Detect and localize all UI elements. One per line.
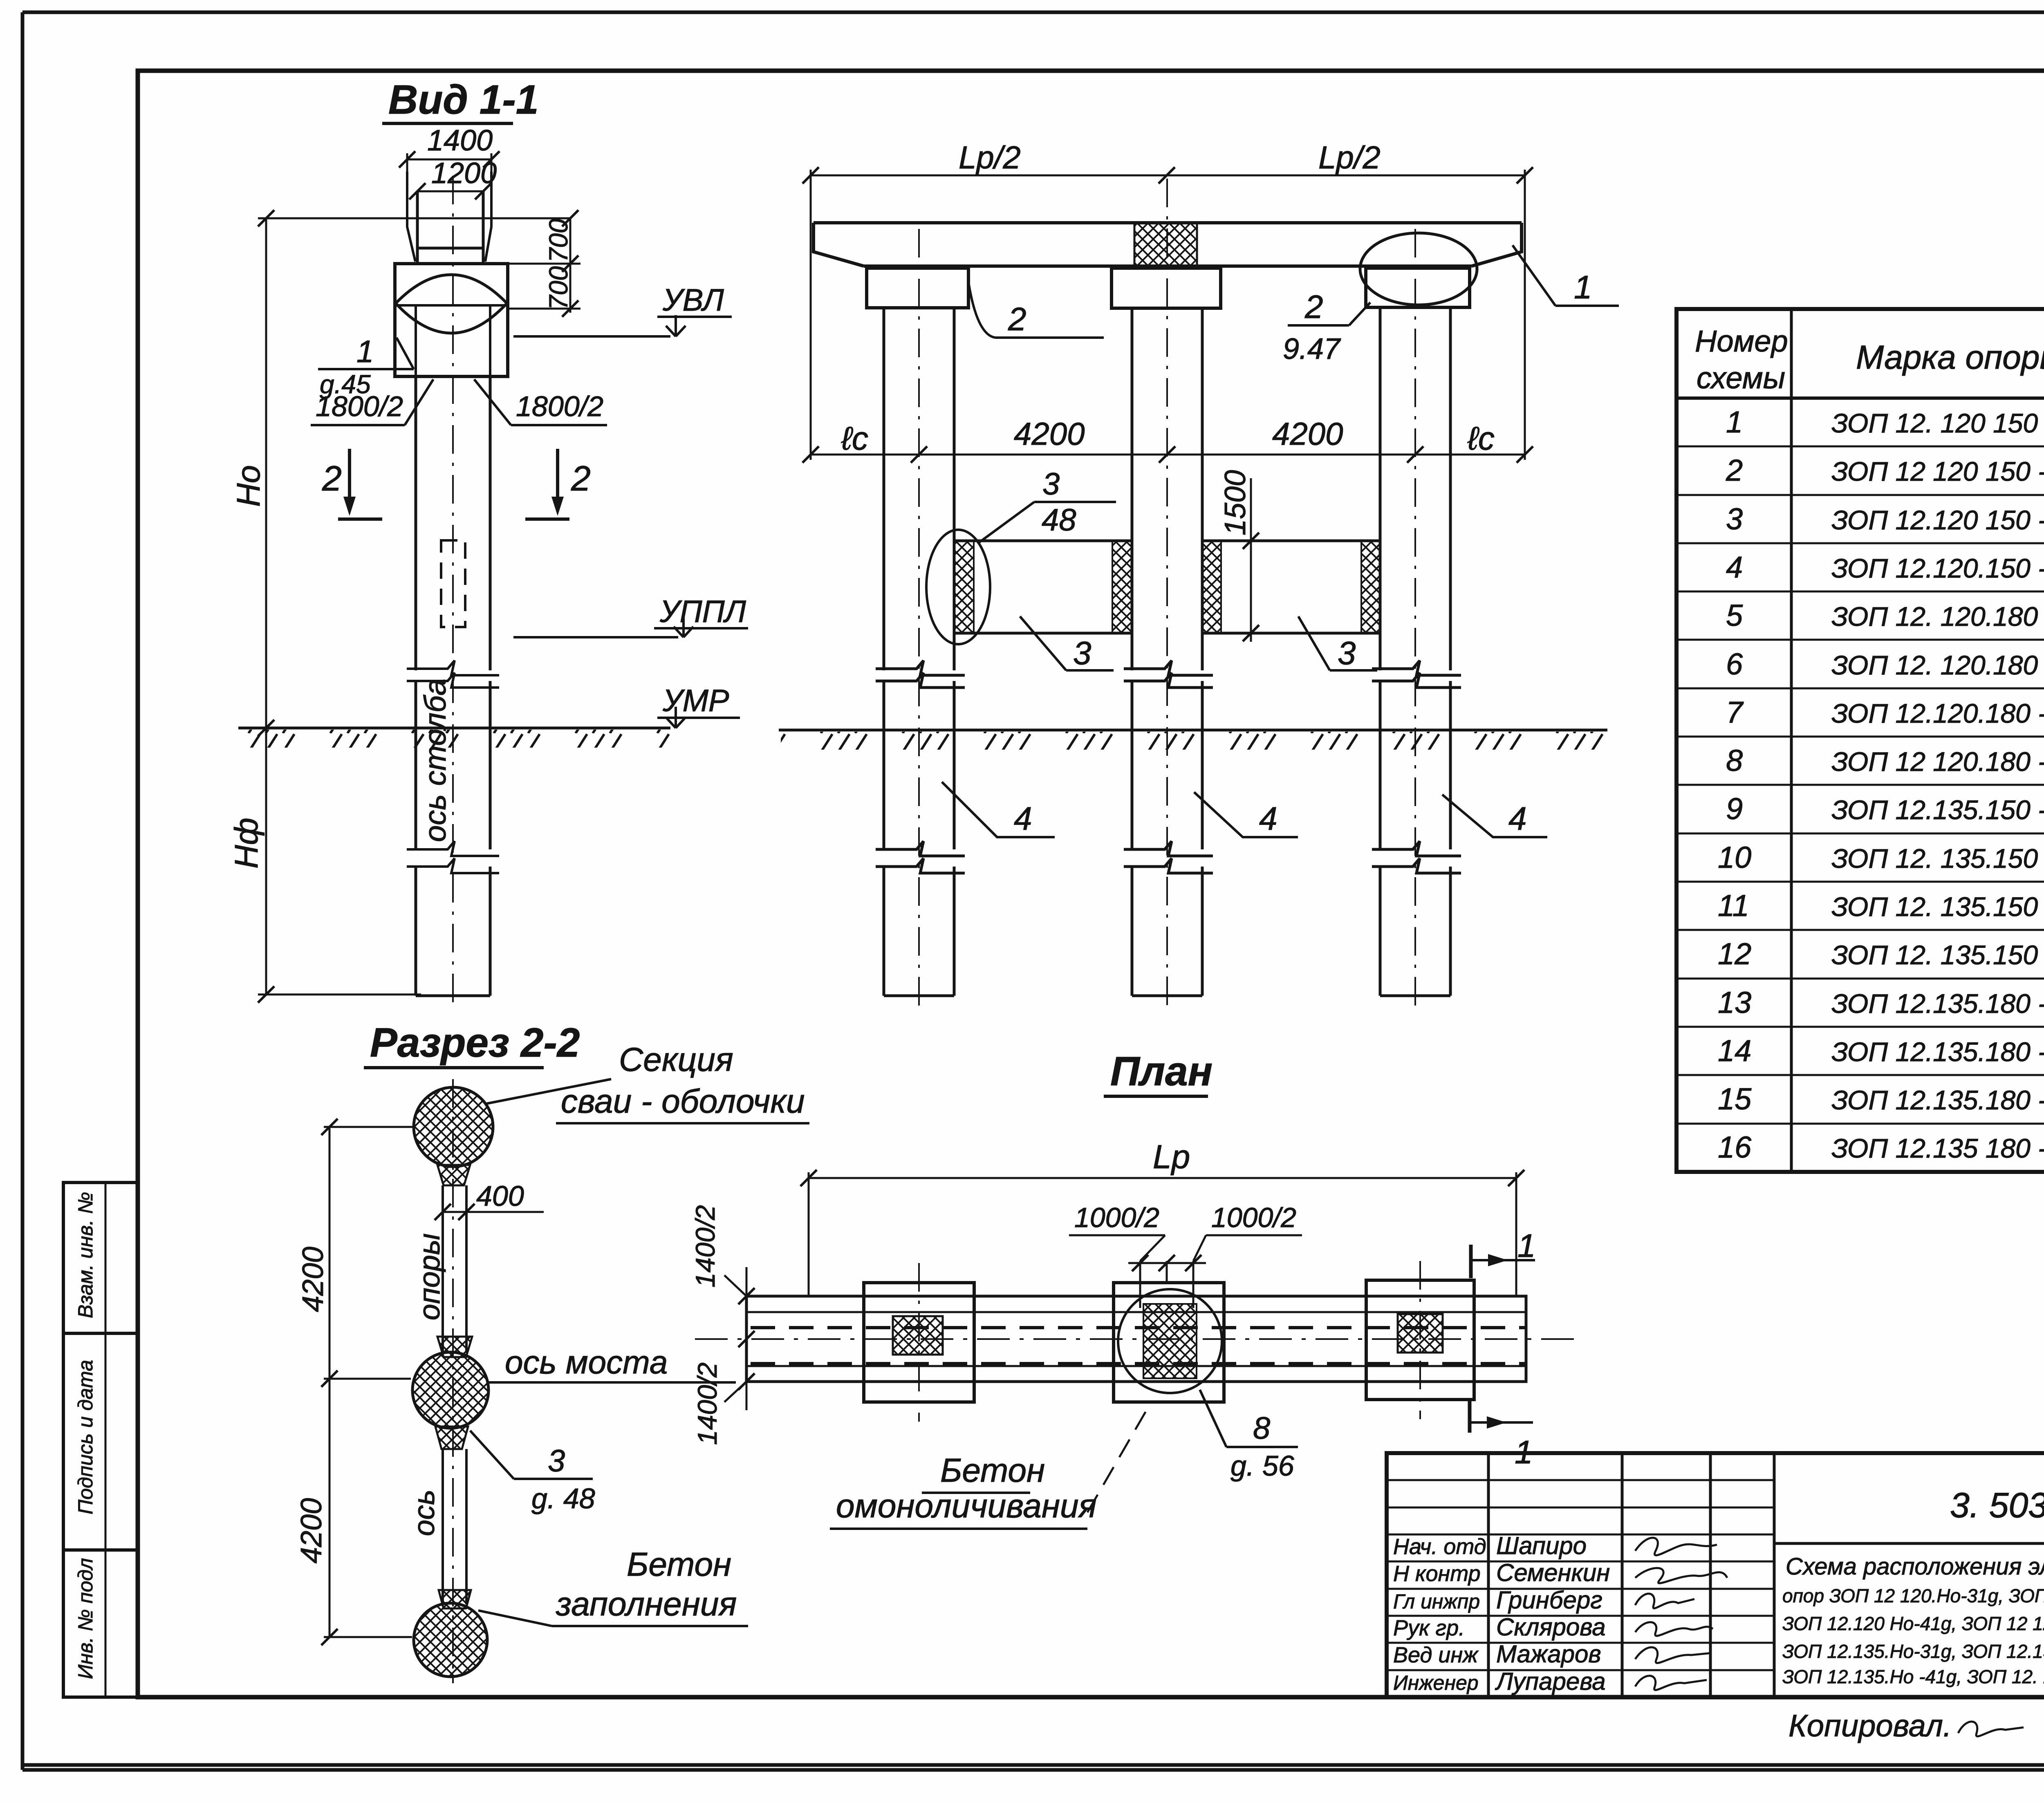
middle column shaft — [1124, 179, 1213, 1010]
tie beam right span — [1202, 541, 1380, 633]
svg-text:ЗОП 12.135.180 - 41g: ЗОП 12.135.180 - 41g — [1831, 1085, 2044, 1115]
svg-text:2: 2 — [322, 459, 342, 498]
svg-text:6: 6 — [1726, 647, 1743, 681]
section mark 1 top — [1471, 1227, 1536, 1278]
title block signature rows — [1393, 1532, 1610, 1695]
bridge axis label ось моста — [489, 1344, 736, 1382]
svg-text:УМР: УМР — [662, 683, 729, 718]
svg-text:1800/2: 1800/2 — [516, 390, 603, 422]
svg-text:700: 700 — [544, 266, 573, 310]
svg-text:ЗОП 12. 120.180 - 31g: ЗОП 12. 120.180 - 31g — [1831, 601, 2044, 632]
svg-text:ЗОП 12 120 150 -32g: ЗОП 12 120 150 -32g — [1831, 456, 2044, 486]
label 1 g.45 — [318, 334, 414, 399]
svg-text:3: 3 — [548, 1444, 565, 1478]
svg-text:13: 13 — [1718, 985, 1751, 1019]
footer notes — [1788, 1706, 2044, 1743]
svg-text:1: 1 — [1726, 405, 1743, 439]
svg-text:Инженер: Инженер — [1393, 1671, 1479, 1694]
svg-text:16: 16 — [1718, 1130, 1752, 1164]
svg-text:Шапиро: Шапиро — [1496, 1532, 1587, 1559]
svg-text:7: 7 — [1726, 695, 1744, 729]
svg-text:План: План — [1110, 1048, 1213, 1094]
svg-text:Мажаров: Мажаров — [1496, 1640, 1601, 1668]
svg-text:2: 2 — [571, 459, 591, 498]
dim 1400 top — [399, 124, 500, 196]
svg-text:ЗОП 12.135.150 - 31g: ЗОП 12.135.150 - 31g — [1831, 795, 2044, 825]
level mark УППЛ — [513, 594, 748, 637]
table rows — [1718, 405, 2044, 1164]
column shaft upper — [416, 376, 490, 670]
ground line left drawing — [238, 728, 670, 748]
svg-text:1800/2: 1800/2 — [316, 390, 403, 422]
svg-text:ЗОП 12.135.180 - 32g: ЗОП 12.135.180 - 32g — [1831, 1037, 2044, 1067]
left column shaft — [876, 229, 965, 1010]
svg-text:Семенкин: Семенкин — [1496, 1559, 1610, 1586]
svg-text:УППЛ: УППЛ — [659, 594, 746, 629]
top dimension line Lp/2 Lp/2 — [802, 139, 1533, 460]
svg-text:Вед инж: Вед инж — [1393, 1643, 1479, 1667]
svg-text:Lp/2: Lp/2 — [959, 139, 1021, 175]
svg-text:9.47: 9.47 — [1283, 333, 1341, 365]
shaft between breaks — [416, 681, 490, 849]
svg-text:1500: 1500 — [1219, 470, 1252, 535]
bearing block middle — [1112, 268, 1221, 308]
section axis dash-dot — [452, 1079, 454, 1683]
shaft between middle and bottom circles — [443, 1449, 466, 1604]
dim line lc 4200 4200 lc — [802, 416, 1533, 463]
svg-text:Рук гр.: Рук гр. — [1393, 1616, 1465, 1640]
svg-text:3: 3 — [1726, 502, 1743, 536]
svg-text:ось столба: ось столба — [418, 679, 452, 842]
svg-text:ось: ось — [408, 1489, 441, 1536]
dim 4200 4200 vertical — [295, 1119, 413, 1645]
svg-text:ℓc: ℓc — [1467, 420, 1495, 457]
schemes table — [1676, 309, 2044, 1172]
svg-text:Гл инжпр: Гл инжпр — [1393, 1590, 1480, 1613]
svg-text:1: 1 — [1574, 269, 1592, 305]
svg-text:Копировал.: Копировал. — [1788, 1709, 1952, 1743]
label 3/48 — [977, 467, 1116, 544]
shell pile section middle circle — [412, 1337, 489, 1449]
svg-text:ЗОП 12 120.180 - 42g: ЗОП 12 120.180 - 42g — [1831, 746, 2044, 777]
section 2-2 title — [364, 1020, 580, 1068]
dim 1400/2 1400/2 — [690, 1205, 755, 1445]
svg-text:4: 4 — [1508, 800, 1527, 837]
svg-text:Нач. отд: Нач. отд — [1393, 1534, 1486, 1559]
svg-text:ЗОП 12.135.Но-31g, ЗОП 12.135: ЗОП 12.135.Но-31g, ЗОП 12.135.Но-32g, — [1782, 1641, 2044, 1662]
svg-text:14: 14 — [1718, 1034, 1751, 1068]
right pad in plan — [1366, 1261, 1474, 1419]
dim 700 700 — [508, 210, 580, 317]
dim 1500 — [1219, 470, 1259, 642]
svg-text:1000/2: 1000/2 — [1074, 1202, 1159, 1233]
label Секция сваи-оболочки — [486, 1041, 809, 1123]
svg-text:Лупарева: Лупарева — [1495, 1668, 1606, 1695]
section mark 2 left — [322, 449, 382, 519]
svg-text:Lp/2: Lp/2 — [1318, 139, 1381, 175]
svg-text:заполнения: заполнения — [556, 1586, 737, 1623]
dim 1200 — [409, 157, 497, 199]
column bottom — [416, 867, 490, 996]
level mark УВЛ — [513, 283, 732, 336]
svg-text:4200: 4200 — [297, 1247, 329, 1312]
table headers — [1695, 317, 2044, 396]
svg-text:Номер: Номер — [1695, 324, 1788, 358]
plan title — [1104, 1048, 1213, 1096]
svg-text:УВЛ: УВЛ — [662, 283, 724, 318]
middle pad in plan — [1114, 1283, 1224, 1402]
label Бетон омоноличивания — [830, 1403, 1151, 1529]
svg-text:1400/2: 1400/2 — [692, 1362, 722, 1445]
label 2 left bearing — [968, 282, 1104, 338]
svg-text:Инв. № подл: Инв. № подл — [74, 1558, 97, 1679]
svg-text:4200: 4200 — [1272, 416, 1343, 452]
label 3 left tie — [1020, 616, 1114, 671]
dim Lp — [800, 1138, 1524, 1296]
column axis dash-dot — [452, 176, 454, 1010]
axis label ось столба — [418, 679, 452, 842]
shell pile section top circle — [414, 1087, 493, 1185]
label Бетон заполнения — [478, 1546, 748, 1626]
view 1-1 title — [382, 77, 538, 123]
svg-text:15: 15 — [1718, 1082, 1752, 1116]
svg-text:опор ЗОП 12 120.Но-31g, ЗОП 12: опор ЗОП 12 120.Но-31g, ЗОП 12.120.Но-32… — [1782, 1585, 2044, 1606]
shaft break upper — [407, 661, 499, 688]
svg-text:Склярова: Склярова — [1496, 1613, 1606, 1641]
section mark 2 right — [525, 449, 591, 519]
bearing block left — [867, 268, 968, 308]
svg-text:ось моста: ось моста — [505, 1344, 668, 1380]
svg-text:1: 1 — [356, 334, 374, 369]
svg-text:1400/2: 1400/2 — [690, 1205, 720, 1288]
label 2 / 9.47 right bearing — [1283, 289, 1370, 365]
svg-text:11: 11 — [1718, 889, 1749, 923]
svg-text:Бетон: Бетон — [940, 1452, 1045, 1489]
label 3 right tie — [1298, 616, 1377, 671]
detail ellipse on right bearing — [1360, 233, 1477, 305]
left pad in plan — [864, 1263, 974, 1422]
svg-text:4200: 4200 — [295, 1498, 328, 1563]
svg-text:10: 10 — [1718, 840, 1751, 874]
svg-text:ЗОП 12. 120.180 -32g: ЗОП 12. 120.180 -32g — [1831, 650, 2044, 680]
svg-text:4200: 4200 — [1014, 416, 1085, 452]
side stamp box Взам. инв. № — [63, 1183, 138, 1333]
svg-text:омоноличивания: омоноличивания — [836, 1487, 1096, 1525]
document number — [1950, 1486, 2044, 1525]
axis label ось — [408, 1489, 441, 1536]
signatures — [1635, 1538, 1727, 1690]
svg-text:4: 4 — [1726, 550, 1743, 584]
title block frame — [1387, 1453, 2044, 1697]
svg-text:3: 3 — [1042, 467, 1060, 502]
svg-text:1200: 1200 — [431, 157, 497, 190]
section mark 1 bottom — [1470, 1400, 1533, 1470]
svg-text:4: 4 — [1014, 800, 1032, 837]
description text — [1782, 1553, 2044, 1687]
svg-text:ЗОП 12.135 180 - 42g: ЗОП 12.135 180 - 42g — [1831, 1133, 2044, 1163]
cap beam — [814, 223, 1522, 266]
svg-text:ЗОП 12.120.180 - 41g: ЗОП 12.120.180 - 41g — [1831, 698, 2044, 728]
svg-text:700: 700 — [544, 219, 573, 262]
svg-text:9: 9 — [1726, 792, 1743, 826]
svg-text:3: 3 — [1073, 635, 1091, 671]
bearing block right — [1366, 268, 1470, 307]
svg-text:8: 8 — [1253, 1411, 1270, 1446]
svg-text:48: 48 — [1042, 503, 1076, 538]
svg-text:3. 503.1- 69.1 36: 3. 503.1- 69.1 36 — [1950, 1486, 2044, 1525]
svg-text:ЗОП 12.120 150 - 41g: ЗОП 12.120 150 - 41g — [1831, 505, 2044, 535]
svg-text:Бетон: Бетон — [627, 1546, 731, 1583]
dim 400 shaft width — [435, 1180, 544, 1220]
svg-text:5: 5 — [1726, 598, 1743, 632]
svg-text:Марка опоры: Марка опоры — [1856, 339, 2044, 376]
dashed opening in shaft — [441, 540, 465, 627]
level mark УМР — [657, 683, 740, 728]
svg-text:Н контр: Н контр — [1393, 1561, 1481, 1586]
svg-text:Подпись и дата: Подпись и дата — [74, 1360, 97, 1514]
label 8 / g.56 — [1200, 1390, 1298, 1482]
svg-text:Взам. инв. №: Взам. инв. № — [74, 1192, 97, 1318]
joint detail ellipse left — [926, 530, 990, 644]
label 4 middle pile — [1194, 792, 1298, 837]
label 1800/2 right — [474, 379, 607, 425]
side stamp box Инв. № подл — [63, 1550, 138, 1697]
column top tenon block — [407, 172, 491, 264]
label 4 right pile — [1442, 795, 1547, 837]
svg-text:2: 2 — [1008, 301, 1026, 337]
label 3 / g.48 — [470, 1431, 595, 1514]
svg-text:1000/2: 1000/2 — [1211, 1202, 1296, 1233]
svg-text:ЗОП 12. 135.150 -42g: ЗОП 12. 135.150 -42g — [1831, 940, 2044, 970]
svg-text:Но: Но — [230, 465, 267, 507]
svg-text:ЗОП 12. 120 150 - 31g: ЗОП 12. 120 150 - 31g — [1831, 408, 2044, 438]
svg-text:опоры: опоры — [413, 1233, 446, 1320]
svg-text:Секция: Секция — [619, 1041, 733, 1078]
svg-text:схемы: схемы — [1697, 361, 1785, 395]
plan pier cap strip — [695, 1296, 1578, 1382]
below ground break — [407, 841, 499, 873]
svg-text:Гринберг: Гринберг — [1496, 1586, 1602, 1614]
svg-text:1400: 1400 — [427, 124, 493, 157]
dim 1000/2 1000/2 — [1069, 1202, 1302, 1308]
svg-text:ЗОП 12. 135.150 - 41g: ЗОП 12. 135.150 - 41g — [1831, 891, 2044, 922]
label 1800/2 left — [311, 379, 433, 425]
svg-text:сваи - оболочки: сваи - оболочки — [561, 1083, 805, 1120]
shaft between top and middle circles — [443, 1185, 466, 1353]
svg-text:4: 4 — [1259, 800, 1277, 837]
svg-text:ЗОП 12.120 Но-41g, ЗОП 12 120: ЗОП 12.120 Но-41g, ЗОП 12 120. Но-42g, — [1782, 1613, 2044, 1634]
side stamp box Подпись и дата — [63, 1333, 138, 1550]
svg-text:ЗОП 12. 135.150 - 32g: ЗОП 12. 135.150 - 32g — [1831, 843, 2044, 874]
svg-text:8: 8 — [1726, 744, 1743, 777]
svg-text:2: 2 — [1726, 453, 1743, 487]
axis label опоры — [413, 1233, 446, 1320]
svg-text:g. 48: g. 48 — [531, 1483, 595, 1514]
svg-text:Разрез 2-2: Разрез 2-2 — [370, 1020, 580, 1066]
svg-text:Вид 1-1: Вид 1-1 — [388, 77, 538, 123]
svg-text:Lp: Lp — [1153, 1138, 1190, 1176]
column cap block — [395, 264, 508, 376]
grout hatch block on beam — [1134, 223, 1197, 266]
svg-text:Схема расположения элементов: Схема расположения элементов — [1786, 1553, 2044, 1580]
svg-text:ℓc: ℓc — [841, 420, 868, 457]
ground line middle drawing — [779, 730, 1607, 750]
svg-text:Нф: Нф — [228, 818, 264, 869]
label 4 left pile — [942, 782, 1055, 837]
label 1 beam end — [1513, 245, 1619, 306]
svg-text:ЗОП 12.135.180 - 31g: ЗОП 12.135.180 - 31g — [1831, 988, 2044, 1019]
svg-text:1: 1 — [1517, 1227, 1536, 1264]
tie beam left span — [954, 541, 1132, 633]
svg-text:ЗОП 12.120.150 -42g: ЗОП 12.120.150 -42g — [1831, 553, 2044, 583]
Ho dimension — [228, 210, 570, 1003]
svg-text:g. 56: g. 56 — [1230, 1450, 1294, 1482]
svg-text:3: 3 — [1338, 635, 1356, 671]
shell pile section bottom circle — [414, 1590, 487, 1677]
svg-text:2: 2 — [1304, 289, 1323, 325]
svg-text:12: 12 — [1718, 937, 1751, 971]
svg-text:ЗОП 12.135.Но -41g, ЗОП 12. 1: ЗОП 12.135.Но -41g, ЗОП 12. 135.Но-42g — [1782, 1666, 2044, 1687]
right column shaft — [1372, 229, 1461, 1010]
svg-text:400: 400 — [476, 1180, 524, 1212]
